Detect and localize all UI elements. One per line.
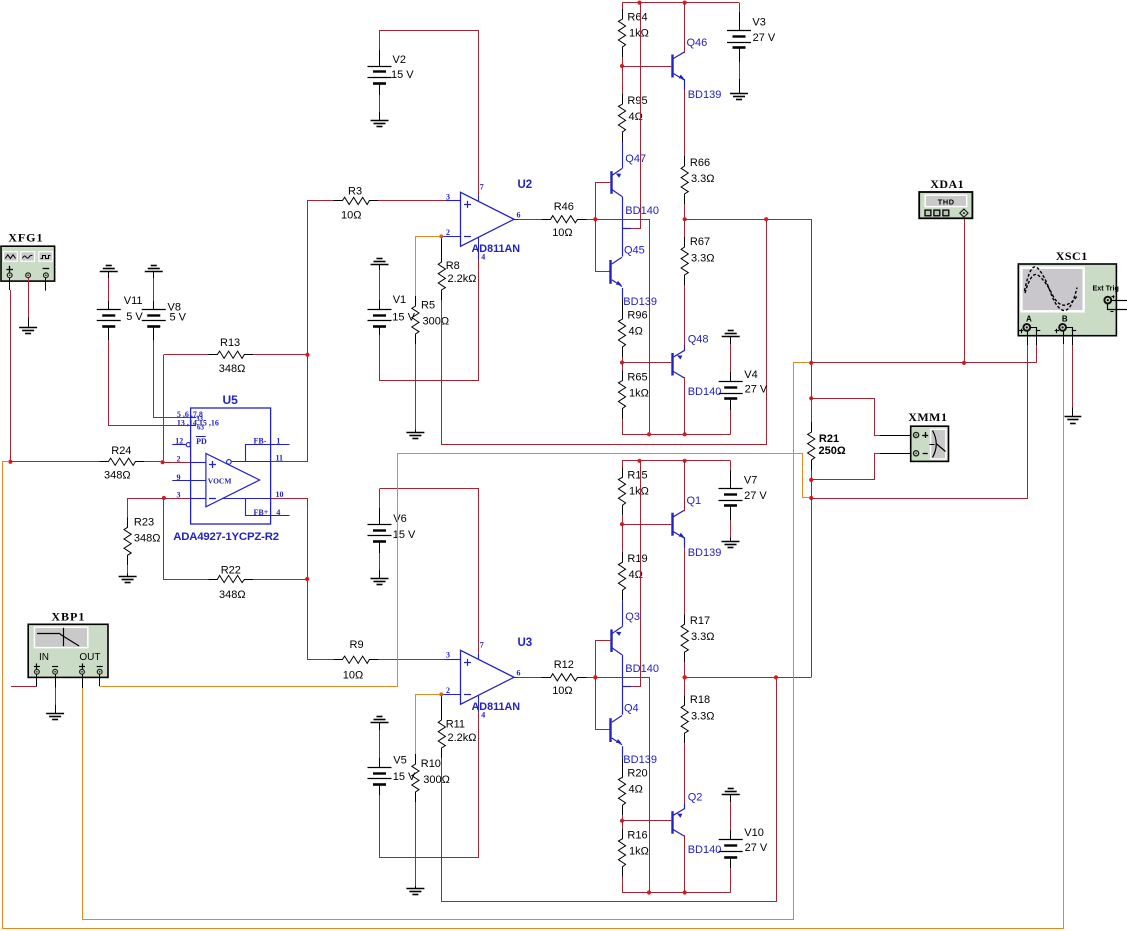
svg-text:Q46: Q46: [687, 37, 708, 49]
transistor Q45 collector: [612, 257, 622, 264]
XSC1 ext trig wires: [1111, 300, 1127, 302]
node neg rail b: [683, 432, 687, 436]
battery V4 27V: [730, 337, 732, 345]
wire base Q2: [622, 820, 671, 822]
wire V2 top rail to U2 pin7: [380, 31, 479, 197]
wire base Q48: [622, 362, 671, 364]
svg-text:10Ω: 10Ω: [552, 685, 572, 697]
resistor R9 10ohm: [333, 656, 378, 663]
svg-text:3: 3: [177, 491, 181, 500]
svg-text:BD139: BD139: [623, 754, 657, 766]
svg-text:PD: PD: [196, 437, 207, 446]
XBP1 bode curve: [63, 628, 65, 646]
XFG1 sine wave icon: [23, 255, 33, 258]
wire base Q47 from input node: [596, 183, 611, 220]
wire U3 output: [514, 677, 518, 679]
svg-text:3.3Ω: 3.3Ω: [691, 711, 715, 723]
svg-text:R16: R16: [627, 830, 647, 842]
op-amp U3 AD811AN: [461, 650, 515, 704]
transistor Q1 bar: [671, 513, 673, 536]
svg-text:7: 7: [480, 183, 484, 192]
op-amp U2 AD811AN: [461, 192, 515, 246]
transistor Q46 collector: [673, 52, 684, 59]
svg-text:AD811AN: AD811AN: [472, 243, 521, 255]
battery V8 5V with ground: [151, 265, 157, 267]
wire V6 top rail to U3 pin7: [380, 489, 479, 655]
node output top: [683, 217, 687, 221]
svg-text:6: 6: [517, 211, 521, 220]
svg-text:R64: R64: [627, 11, 647, 23]
wire R5 to ground: [415, 344, 417, 429]
wire top supply rail: [622, 460, 731, 462]
svg-text:4: 4: [481, 253, 485, 262]
resistor R17 3.3ohm emitter: [684, 537, 686, 548]
transistor Q4 bar: [609, 718, 611, 742]
resistor R10 300ohm: [412, 754, 419, 802]
svg-text:27 V: 27 V: [745, 384, 768, 396]
svg-text:V10: V10: [744, 827, 764, 839]
XFG1 plus wire stub: [9, 278, 11, 290]
svg-text:Q1: Q1: [687, 495, 702, 507]
svg-text:348Ω: 348Ω: [134, 533, 161, 545]
resistor R96 4ohm: [622, 288, 624, 300]
svg-text:10Ω: 10Ω: [341, 210, 361, 222]
node R13 to pin11 column: [305, 353, 309, 357]
svg-text:V4: V4: [744, 369, 757, 381]
svg-text:10Ω: 10Ω: [343, 670, 363, 682]
svg-text:R23: R23: [134, 517, 154, 529]
node feedback tap lower: [774, 675, 778, 679]
transistor Q4 emitter: [612, 738, 622, 745]
transistor Q2 collector: [673, 830, 684, 837]
node neg rail a: [647, 890, 651, 894]
svg-text:348Ω: 348Ω: [219, 589, 246, 601]
transistor Q46 emitter: [673, 74, 684, 81]
wire U5 pin10 output: [271, 498, 308, 500]
svg-text:R21: R21: [819, 433, 839, 445]
XSC1 B minus to ground: [1072, 337, 1074, 345]
wire orange XBP OUT+ to output node: [82, 688, 84, 920]
XBP1 OUT- stub: [99, 675, 101, 687]
svg-text:U3: U3: [518, 637, 533, 649]
svg-text:5 V: 5 V: [126, 311, 143, 323]
transistor Q2 bar: [671, 811, 673, 834]
battery V11 5V with ground: [106, 265, 112, 267]
svg-text:4Ω: 4Ω: [629, 784, 643, 796]
wire bottom negative rail: [622, 892, 731, 894]
svg-text:348Ω: 348Ω: [104, 470, 131, 482]
svg-text:2: 2: [446, 228, 450, 237]
svg-text:R11: R11: [446, 719, 465, 731]
resistor R8 2.2kohm feedback: [441, 238, 443, 262]
wire input node to negative rail: [595, 220, 649, 435]
XSC1 polarity marks: [1019, 330, 1023, 332]
svg-text:300Ω: 300Ω: [423, 316, 450, 328]
XSC1 B minus wire: [1066, 328, 1073, 337]
XSC1 B plus wire: [1063, 331, 1065, 337]
svg-text:OUT: OUT: [79, 652, 100, 663]
svg-text:63: 63: [197, 424, 205, 432]
svg-text:R9: R9: [350, 639, 364, 651]
wire lower output to scope A plus: [811, 345, 1027, 499]
svg-text:Q47: Q47: [625, 153, 646, 165]
XBP1 polarity marks: [34, 666, 40, 668]
svg-text:15 V: 15 V: [392, 312, 415, 324]
resistor R5 300ohm: [412, 296, 419, 344]
wire to XMM1 minus: [811, 454, 880, 480]
svg-text:BD139: BD139: [688, 547, 722, 559]
svg-text:FB+: FB+: [254, 508, 269, 517]
resistor R67 3.3ohm emitter: [684, 219, 686, 237]
svg-text:BD140: BD140: [625, 663, 659, 675]
transistor Q2 emitter: [673, 809, 684, 816]
svg-text:VOCM: VOCM: [208, 477, 232, 486]
XFG1 minus stub: [45, 278, 47, 291]
svg-text:300Ω: 300Ω: [423, 774, 450, 786]
resistor R21 250ohm load: [811, 422, 813, 432]
svg-text:R10: R10: [421, 758, 441, 770]
svg-text:XSC1: XSC1: [1056, 249, 1088, 263]
wire Q47 collector jog: [622, 197, 624, 257]
U5 output bubble pin11 path: [227, 460, 232, 465]
wire U2 output: [514, 219, 518, 221]
svg-text:2.2kΩ: 2.2kΩ: [448, 273, 477, 285]
XMM1 terminals: [914, 432, 919, 437]
XBP1 OUT+ stub: [82, 675, 84, 689]
wire orange source sense to scope B: [3, 344, 1064, 929]
transistor Q48 emitter: [673, 350, 684, 357]
svg-text:R20: R20: [627, 768, 647, 780]
ground below R23: [119, 576, 137, 578]
svg-text:10: 10: [276, 490, 284, 499]
resistor R11 2.2kohm feedback: [441, 696, 443, 720]
svg-text:2: 2: [177, 455, 181, 464]
battery V7 27V: [730, 461, 732, 470]
wire R9 input column: [271, 499, 334, 660]
transistor Q1 emitter: [673, 532, 684, 539]
wire R13 column: [163, 355, 165, 460]
svg-text:15 V: 15 V: [391, 69, 414, 81]
node bias bottom: [620, 360, 624, 364]
ground below V3: [730, 93, 748, 95]
node U5 pin2: [161, 460, 165, 464]
svg-text:1: 1: [276, 436, 280, 445]
node rail right: [683, 459, 687, 463]
wire to XMM1 plus: [811, 399, 880, 436]
svg-text:R22: R22: [221, 565, 241, 577]
svg-text:XBP1: XBP1: [51, 609, 85, 623]
U5 FB- internal branch: [246, 445, 290, 462]
XDA1 terminal: [960, 209, 968, 217]
wire bottom negative rail: [622, 434, 731, 436]
svg-text:BD139: BD139: [623, 296, 657, 308]
wire R3 input column: [271, 201, 334, 462]
transistor Q3 emitter: [612, 627, 622, 634]
resistor R12 10ohm: [542, 674, 587, 681]
svg-text:Q45: Q45: [624, 245, 645, 257]
svg-text:27 V: 27 V: [753, 32, 776, 44]
node neg rail a: [647, 432, 651, 436]
svg-text:R3: R3: [348, 186, 362, 198]
svg-text:R66: R66: [690, 157, 710, 169]
svg-text:3.3Ω: 3.3Ω: [691, 173, 715, 185]
node XMM minus tap: [809, 478, 813, 482]
wire XFG1 plus to R24: [10, 290, 12, 460]
U5 pin stubs left: [172, 444, 186, 446]
wire top supply rail: [622, 2, 739, 4]
wire base Q45 from input node: [596, 219, 610, 271]
XSC1 waveform A: [1025, 267, 1078, 311]
wire U5 pin3 node: [162, 496, 166, 500]
ground above V10: [728, 788, 734, 790]
svg-text:XFG1: XFG1: [8, 230, 43, 244]
svg-text:R95: R95: [627, 95, 647, 107]
XBP1 IN- wire to ground: [55, 675, 57, 688]
transistor Q47 emitter: [612, 169, 622, 176]
node rail right: [683, 1, 687, 5]
U5 FB+ internal branch: [246, 498, 290, 515]
resistor R64 1kohm: [622, 3, 624, 9]
XSC1 A plus wire: [1027, 331, 1029, 337]
svg-text:R12: R12: [554, 659, 574, 671]
wire R11 to output feedback: [442, 679, 777, 901]
node output top: [683, 675, 687, 679]
XDA1 buttons: [925, 210, 931, 216]
transistor Q48 collector: [673, 372, 684, 379]
XSC1 ext trig terminal: [1104, 297, 1111, 304]
svg-text:V1: V1: [393, 294, 406, 306]
wire R8 to output feedback: [442, 219, 767, 444]
wire base Q3 from input node: [596, 641, 611, 678]
ground above V5: [377, 716, 383, 718]
svg-text:1kΩ: 1kΩ: [629, 388, 649, 400]
svg-text:9: 9: [177, 473, 181, 482]
ground below V7: [722, 541, 740, 543]
svg-text:R19: R19: [627, 553, 647, 565]
U5 pin9 stub: [172, 480, 206, 482]
transistor Q4 collector: [612, 716, 622, 723]
wire pin3 to R22: [164, 500, 209, 580]
battery V3 27V: [739, 3, 741, 12]
ground below XSC1: [1065, 416, 1082, 418]
svg-text:4: 4: [276, 508, 280, 517]
svg-text:U2: U2: [518, 179, 533, 191]
svg-text:R13: R13: [220, 337, 240, 349]
svg-text:XMM1: XMM1: [908, 410, 947, 424]
transistor Q45 emitter: [612, 280, 622, 287]
node feedback tap upper: [764, 217, 768, 221]
svg-text:Q4: Q4: [624, 703, 639, 715]
resistor R66 3.3ohm emitter: [684, 79, 686, 90]
svg-text:AD811AN: AD811AN: [472, 701, 521, 713]
op-amp U5 ADA4927 box: [191, 408, 271, 524]
node bias top: [620, 64, 624, 68]
wire V1 to U2 pin4: [380, 260, 479, 381]
U5 power pin row 13-16: [191, 425, 196, 427]
XSC1 B terminal: [1059, 324, 1066, 331]
wire scope A minus stub: [1036, 345, 1038, 363]
svg-text:V11: V11: [124, 295, 143, 307]
svg-text:3.3Ω: 3.3Ω: [691, 253, 715, 265]
svg-text:R67: R67: [690, 236, 710, 248]
svg-text:3: 3: [446, 651, 450, 660]
resistor R20 4ohm: [622, 746, 624, 758]
node output bottom: [683, 675, 687, 679]
svg-text:7: 7: [480, 641, 484, 650]
battery V1 15V: [379, 264, 381, 270]
U5 pin2 line inside: [191, 462, 206, 464]
svg-text:R65: R65: [627, 372, 647, 384]
ground below V2: [371, 120, 389, 122]
wire R9 to U3 pin3: [378, 659, 446, 661]
wire R3 to U2 pin3: [378, 200, 446, 202]
wire Q3 collector jog: [622, 655, 624, 715]
svg-text:BD140: BD140: [688, 844, 722, 856]
wire orange XBP OUT- to lower output node: [100, 454, 809, 687]
XFG1 common wire to ground: [28, 278, 30, 318]
svg-text:V6: V6: [393, 513, 406, 525]
node source input: [8, 460, 12, 464]
resistor R24 348ohm: [99, 458, 144, 465]
wire base Q1: [622, 524, 671, 526]
wire U5 pin11 output: [271, 461, 308, 463]
resistor R13 348ohm: [208, 351, 253, 358]
resistor R15 1kohm: [622, 461, 624, 467]
wire input node to negative rail: [595, 678, 649, 893]
node to XDA XSC: [809, 361, 813, 365]
svg-text:15 V: 15 V: [393, 529, 416, 541]
XFG1 triangle wave icon: [5, 255, 15, 259]
node XMM plus tap: [809, 396, 813, 400]
resistor R19 4ohm: [622, 524, 624, 552]
svg-text:4Ω: 4Ω: [629, 326, 643, 338]
wire output node to R21 column: [685, 220, 812, 423]
XSC1 A minus wire: [1030, 328, 1037, 337]
svg-text:A: A: [1026, 315, 1032, 324]
wire V5 to U3 pin4: [380, 712, 479, 858]
transistor Q46 bar: [671, 55, 673, 78]
svg-text:Q48: Q48: [688, 334, 709, 346]
resistor R18 3.3ohm emitter: [684, 677, 686, 695]
svg-text:BD139: BD139: [688, 89, 722, 101]
transistor Q1 collector: [673, 510, 684, 517]
svg-text:R8: R8: [446, 260, 460, 272]
node U3 inverting input: [439, 692, 443, 696]
resistor R65 1kohm: [622, 363, 624, 371]
svg-text:348Ω: 348Ω: [219, 363, 246, 375]
XFG1 minus mark: [43, 268, 50, 270]
XBP1 terminals: [35, 669, 40, 674]
node R12 output: [593, 675, 597, 679]
svg-text:R5: R5: [421, 300, 435, 312]
svg-text:2: 2: [446, 686, 450, 695]
wire base Q46: [622, 66, 671, 68]
wire R21 bottom to lower output: [811, 470, 813, 677]
wire to XDA1 and scope A minus: [811, 362, 1036, 364]
resistor R16 1kohm: [622, 821, 624, 829]
node neg rail b: [683, 890, 687, 894]
XFG1 terminals: [7, 273, 12, 278]
battery V2 15V: [379, 30, 381, 50]
svg-text:V3: V3: [752, 16, 765, 28]
U5 pin10 internal line: [223, 498, 271, 500]
wire base Q4 from input node: [596, 677, 610, 729]
battery V5 15V: [379, 722, 381, 730]
ground below R5: [406, 432, 424, 434]
XMM1 plus mark: [922, 435, 928, 437]
node bias top: [620, 522, 624, 526]
svg-text:BD140: BD140: [625, 205, 659, 217]
svg-text:R15: R15: [627, 470, 647, 482]
transistor Q3 bar: [610, 629, 612, 652]
transistor Q47 collector: [612, 190, 622, 197]
resistor R95 4ohm: [622, 66, 624, 94]
U5 pin3 line inside: [191, 498, 206, 500]
transistor Q3 collector: [612, 648, 622, 655]
resistor R22 348ohm: [208, 575, 253, 582]
svg-text:ADA4927-1YCPZ-R2: ADA4927-1YCPZ-R2: [173, 531, 279, 543]
svg-text:Ext Trig: Ext Trig: [1093, 284, 1119, 293]
svg-text:11: 11: [276, 454, 284, 463]
transistor Q48 bar: [671, 353, 673, 376]
svg-text:12: 12: [175, 437, 183, 446]
resistor R46 10ohm: [542, 216, 587, 223]
node R22 junction: [305, 577, 309, 581]
svg-text:4: 4: [481, 711, 485, 720]
svg-text:10Ω: 10Ω: [552, 227, 572, 239]
XMM1 minus mark: [923, 453, 928, 455]
XSC1 A terminal: [1023, 324, 1030, 331]
ground below V6: [371, 578, 389, 580]
node R46 output: [593, 217, 597, 221]
svg-text:3.3Ω: 3.3Ω: [691, 631, 715, 643]
svg-text:R96: R96: [627, 310, 647, 322]
svg-text:FB-: FB-: [254, 436, 267, 445]
svg-text:XDA1: XDA1: [930, 177, 964, 191]
U5 internal triangle: [206, 454, 260, 507]
node U2 inverting input: [439, 234, 443, 238]
node lower output tap: [809, 496, 813, 500]
U5 power pin row 5-8: [191, 417, 196, 419]
XSC1 waveform B: [1025, 274, 1078, 305]
svg-text:U5: U5: [223, 393, 239, 407]
ground above V1: [377, 258, 383, 260]
node rail left: [637, 1, 641, 5]
svg-text:5 V: 5 V: [170, 312, 187, 324]
svg-text:1kΩ: 1kΩ: [629, 486, 649, 498]
resistor R23 348ohm to ground: [124, 517, 131, 565]
XMM1 meter needle: [933, 431, 937, 458]
svg-text:BD140: BD140: [688, 386, 722, 398]
svg-text:R46: R46: [554, 201, 574, 213]
svg-text:2.2kΩ: 2.2kΩ: [448, 732, 477, 744]
svg-text:V7: V7: [744, 475, 757, 487]
svg-text:15 V: 15 V: [393, 771, 416, 783]
svg-text:R24: R24: [111, 445, 131, 457]
svg-text:V2: V2: [393, 54, 406, 66]
svg-text:27 V: 27 V: [744, 490, 767, 502]
svg-text:Q2: Q2: [688, 792, 703, 804]
svg-text:IN: IN: [39, 652, 49, 663]
XFG1 square wave icon: [41, 256, 51, 259]
resistor R3 10ohm: [333, 197, 378, 204]
svg-text:250Ω: 250Ω: [819, 445, 846, 457]
svg-text:R17: R17: [690, 615, 710, 627]
svg-text:B: B: [1062, 315, 1068, 324]
battery V10 27V: [730, 795, 732, 803]
XBP1 IN+ wire: [36, 675, 38, 687]
svg-text:Q3: Q3: [625, 611, 640, 623]
